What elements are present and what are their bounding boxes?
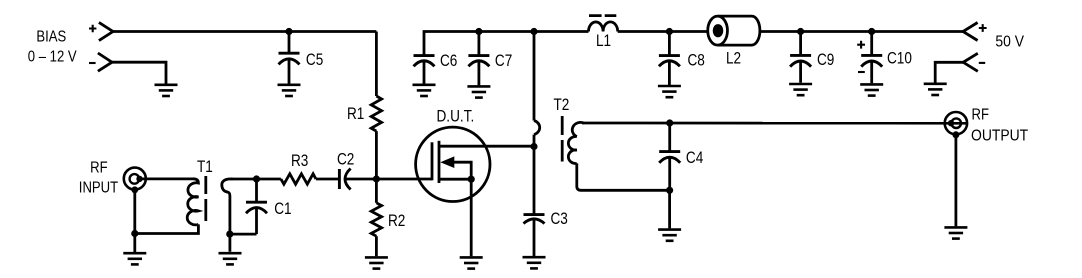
svg-text:R3: R3: [291, 152, 308, 171]
svg-text:RF: RF: [90, 160, 108, 177]
svg-text:50 V: 50 V: [995, 33, 1024, 51]
svg-text:D.U.T.: D.U.T.: [437, 107, 475, 126]
svg-text:RF: RF: [972, 106, 990, 123]
svg-text:C1: C1: [274, 200, 291, 219]
svg-text:C3: C3: [551, 210, 568, 229]
svg-text:C8: C8: [688, 51, 705, 70]
svg-text:C2: C2: [337, 150, 354, 169]
svg-text:C7: C7: [495, 52, 512, 71]
svg-text:L2: L2: [726, 49, 741, 68]
svg-text:T1: T1: [197, 158, 213, 177]
svg-text:T2: T2: [554, 96, 570, 115]
svg-text:C9: C9: [817, 51, 834, 70]
svg-text:OUTPUT: OUTPUT: [971, 127, 1028, 145]
svg-text:BIAS: BIAS: [36, 28, 66, 45]
svg-text:C4: C4: [686, 149, 704, 168]
svg-text:C5: C5: [306, 51, 323, 70]
svg-text:C10: C10: [887, 49, 912, 68]
svg-text:L1: L1: [596, 32, 611, 51]
svg-text:C6: C6: [440, 52, 457, 71]
svg-text:0 – 12 V: 0 – 12 V: [28, 48, 77, 65]
svg-text:INPUT: INPUT: [79, 179, 118, 196]
svg-text:R2: R2: [388, 211, 405, 230]
svg-text:R1: R1: [347, 105, 364, 124]
